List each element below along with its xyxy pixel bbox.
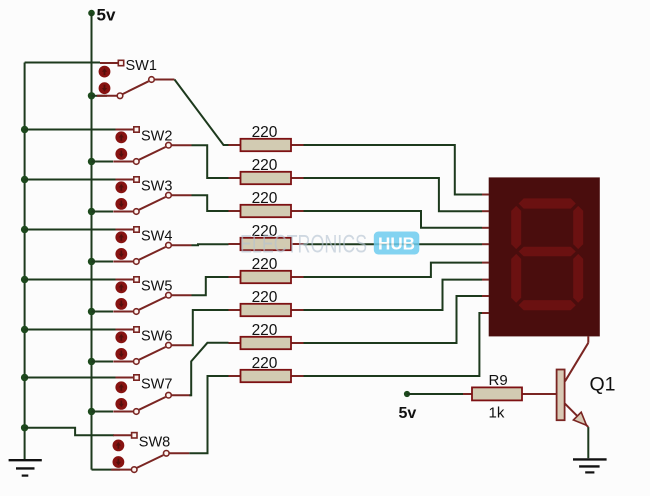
wire trunk to SW1 pole (92, 95, 108, 97)
wire R4 to display pin 4 (304, 243, 489, 245)
wire SW4 to R4 (192, 244, 229, 245)
svg-text:220: 220 (252, 322, 278, 339)
wire R7 to display pin 7 (304, 296, 489, 343)
value label 220 (R4) (252, 223, 278, 240)
wire trunk to SW2 pole (92, 161, 114, 163)
value label 220 (R7) (252, 322, 278, 339)
junction dot bus-SW6 (21, 326, 28, 333)
svg-text:SW6: SW6 (141, 329, 172, 345)
label SW5 (141, 279, 172, 295)
resistor R8 (220) (229, 370, 304, 382)
label SW7 (141, 377, 172, 393)
wire SW1 to R1 (diagonal) (175, 80, 229, 146)
wire left bus to SW4 top terminal (25, 229, 117, 231)
ground (right, below Q1) (573, 459, 607, 472)
junction dot trunk-SW3 pole (88, 208, 95, 215)
value label 220 (R8) (252, 355, 278, 372)
wire Q1 emitter to ground (587, 427, 589, 458)
wire 5v node to R9 (407, 393, 463, 395)
switch SW7 (113, 375, 191, 415)
wire trunk to SW7 pole (92, 411, 114, 413)
wire trunk to SW4 pole (92, 261, 114, 263)
wire left bus to SW8 top terminal (stepped) (25, 428, 114, 436)
junction dot trunk-SW5 pole (88, 308, 95, 315)
switch SW8 (111, 433, 189, 473)
wire trunk to SW3 pole (92, 211, 114, 213)
junction dot trunk-SW7 pole (88, 408, 95, 415)
switch SW3 (113, 177, 191, 215)
svg-text:SW2: SW2 (141, 129, 172, 145)
svg-text:5v: 5v (399, 405, 417, 422)
wire trunk to SW5 pole (92, 311, 114, 313)
ground (bottom-left) (9, 460, 42, 475)
value label 220 (R2) (252, 157, 278, 174)
wire R3 to display pin 3 (304, 211, 489, 228)
label SW8 (139, 434, 170, 450)
junction dot bus-SW4 (21, 226, 28, 233)
resistor R3 (220) (229, 205, 304, 217)
junction dot bus-SW2 (21, 126, 28, 133)
watermark Electronics Hub (240, 231, 419, 259)
wire left bus to SW2 top terminal (25, 129, 117, 131)
resistor R1 (220) (229, 139, 304, 151)
label SW6 (141, 329, 172, 345)
junction dot bus-SW5 (21, 276, 28, 283)
switch SW2 (113, 127, 191, 165)
svg-text:SW3: SW3 (141, 179, 172, 195)
svg-text:220: 220 (252, 355, 278, 372)
label Q1 (590, 374, 616, 396)
svg-text:SW4: SW4 (141, 229, 172, 245)
transistor Q1 body bar (557, 370, 565, 421)
svg-text:SW5: SW5 (141, 279, 172, 295)
value label 1k (489, 405, 505, 422)
label SW4 (141, 229, 172, 245)
7-segment display segments (figure 8) (511, 198, 583, 310)
junction dot trunk-SW2 pole (88, 158, 95, 165)
svg-text:SW8: SW8 (139, 434, 170, 450)
value label 220 (R3) (252, 190, 278, 207)
transistor Q1 collector (from display) (565, 343, 588, 382)
junction dot trunk-SW6 pole (88, 358, 95, 365)
svg-text:ELECTRONICS: ELECTRONICS (240, 231, 367, 259)
node 5v (top power) (88, 6, 116, 25)
svg-text:SW7: SW7 (141, 377, 172, 393)
wire left bus vertical (to ground) (24, 63, 26, 460)
wire left bus to SW7 top terminal (25, 377, 117, 379)
wire SW3 to R3 (192, 195, 229, 211)
wire trunk to SW6 pole (92, 361, 114, 363)
junction dot bus-SW8 (21, 424, 28, 431)
wire R5 to display pin 5 (304, 263, 489, 277)
svg-text:220: 220 (252, 157, 278, 174)
label SW2 (141, 129, 172, 145)
label R9 (489, 372, 508, 389)
resistor R2 (220) (229, 172, 304, 184)
junction dot trunk-SW4 pole (88, 258, 95, 265)
wire SW5 to R5 (192, 277, 229, 295)
switch SW1 (97, 60, 175, 98)
wire 5v trunk vertical (91, 13, 93, 470)
svg-text:220: 220 (252, 256, 278, 273)
wire R1 to display pin 1 (304, 145, 489, 195)
wire left bus to SW6 top terminal (25, 329, 117, 331)
junction dot trunk-SW1 pole (88, 92, 95, 99)
wire SW7 to R7 (with diagonal) (189, 343, 228, 395)
label SW1 (126, 58, 157, 74)
value label 220 (R5) (252, 256, 278, 273)
wire left bus to SW5 top terminal (25, 279, 117, 281)
resistor R6 (220) (229, 304, 304, 316)
svg-text:Q1: Q1 (590, 374, 616, 396)
wire SW2 to R2 (192, 145, 229, 178)
junction dot bus-SW7 (21, 374, 28, 381)
svg-text:220: 220 (252, 124, 278, 141)
value label 220 (R6) (252, 289, 278, 306)
svg-text:HUB: HUB (378, 234, 415, 254)
resistor R5 (220) (229, 271, 304, 283)
wire SW6 to R6 (192, 310, 229, 345)
svg-text:220: 220 (252, 190, 278, 207)
node 5v (base drive) (399, 391, 417, 422)
svg-text:1k: 1k (489, 405, 505, 422)
junction dot bus-SW3 (21, 176, 28, 183)
resistor R9 (1k) (463, 387, 557, 400)
label SW3 (141, 179, 172, 195)
svg-text:220: 220 (252, 289, 278, 306)
transistor Q1 emitter with arrow (565, 403, 589, 427)
switch SW5 (113, 277, 191, 315)
wire left bus to SW3 top terminal (25, 179, 117, 181)
switch SW6 (113, 327, 191, 365)
value label 220 (R1) (252, 124, 278, 141)
wire left bus to SW1 top terminal (25, 62, 100, 64)
svg-text:R9: R9 (489, 372, 508, 389)
resistor R4 (220) (229, 238, 304, 250)
display common pin (587, 336, 589, 342)
svg-text:5v: 5v (97, 6, 116, 25)
wire trunk to SW8 pole (92, 469, 121, 471)
resistor R7 (220) (229, 337, 304, 349)
svg-text:SW1: SW1 (126, 58, 157, 74)
wire SW8 to R8 (189, 376, 228, 453)
wire R2 to display pin 2 (304, 178, 489, 211)
switch SW4 (113, 227, 191, 265)
wire R6 to display pin 6 (304, 280, 489, 310)
wire R8 to display pin 8 (304, 313, 489, 376)
7-segment display body (489, 177, 600, 336)
